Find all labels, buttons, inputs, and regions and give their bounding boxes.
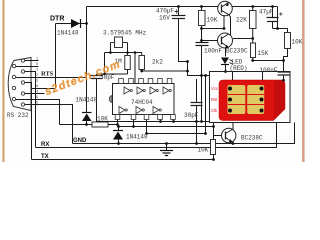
junction R8 at bus126 [212,125,215,128]
U1 inverter gates bottom row [119,107,161,114]
transistor Q1 BC239C [202,1,233,35]
connector J1 DB9 RS232 outline [8,58,31,111]
transistor Q3 BC238C [214,123,236,144]
ground symbol [160,144,173,156]
polarity mark 470uF [175,9,180,14]
U1 top pins [119,79,172,84]
wire GND from pin5 [25,105,73,144]
DB9 pins left column [12,64,15,100]
svg-text:TX: TX [41,154,49,160]
wire SIM top left drop [232,72,234,81]
wire TX bus [32,159,214,161]
wire TX from pin3 [25,83,32,160]
junction GND C6 [195,142,198,145]
crystal X1 3.579545 MHz [111,37,128,53]
wire bus y121 [97,121,210,123]
wire bus y126 [119,126,214,128]
SIM card body [219,80,285,121]
wire IC pin drop to bus126 [133,120,135,127]
capacitor C4 47uF [267,7,279,29]
wire pin4 stub [25,93,45,95]
svg-text:1N4148: 1N4148 [76,97,98,104]
wire inverter input drop [134,53,136,84]
resistor R4 22K [250,7,257,44]
junction right corner [276,27,279,30]
IC U1 74HC04 body [109,84,174,115]
wire pin9 to bottom bus [16,100,60,125]
wire pin1 stub [25,60,39,62]
wire DTR vertical from DB9 pin 8 [16,24,56,89]
junction bus126 pin [132,125,135,128]
junction bus121 C3 [195,120,198,123]
junction at rail drop [85,22,88,25]
diode D3 1N4148 [113,127,123,144]
svg-text:2k2: 2k2 [152,59,163,66]
junction LED anode [224,70,227,73]
transistor Q2 BC239C [202,33,233,57]
junction GND tap [165,142,168,145]
svg-text:2: 2 [36,69,39,73]
svg-text:RS 232: RS 232 [7,112,29,119]
wire bus y133 [147,133,206,135]
wire IC pins drop to bus121 [161,120,174,122]
capacitor C5 100nF right [278,72,290,80]
svg-text:3: 3 [36,80,39,84]
svg-text:Vcc: Vcc [211,86,218,91]
svg-text:DTR: DTR [50,16,64,23]
svg-text:BC239C: BC239C [226,48,248,55]
svg-text:47µF: 47µF [259,9,274,16]
resistor R7 10K horizontal [60,122,118,127]
wire rail left drop to DTR diode [86,7,88,24]
svg-text:(RED): (RED) [230,65,248,72]
wire rail right corner down [273,7,288,29]
svg-text:100nF: 100nF [204,48,222,55]
junction bus121 pin2 [172,120,175,123]
junction mid [186,70,189,73]
svg-text:470µF: 470µF [156,8,174,15]
svg-text:6: 6 [36,63,39,67]
junction D2 bottom [85,123,88,126]
SIM pin dots left [228,87,232,113]
svg-text:30pF: 30pF [184,112,199,119]
LED D4 red [221,58,233,72]
diode D2 1N4148 vertical [82,113,92,125]
resistor R5 15K [251,43,284,61]
junction R7 right at pin [116,123,119,126]
junction 2k2 bottom [140,70,143,73]
wire VCC top rail [87,6,278,8]
junction Q2 base [200,39,203,42]
page border left [2,0,4,162]
wire RX bus [36,123,277,148]
junction Q3 emitter at GND [232,142,235,145]
resistor R3 10K [199,7,206,43]
SIM holder box [210,72,291,123]
resistor R6 10K right [284,29,291,73]
svg-text:1N4148: 1N4148 [57,30,79,37]
junction 470uF at rail [177,5,180,8]
wire GND bus [73,123,295,144]
junction SIM feed [204,74,207,77]
junction 30pF wire [103,73,106,76]
junction Q1 base [223,27,226,30]
wire IC pin1 drop [117,120,119,125]
svg-text:10K: 10K [198,147,209,154]
junction bus126 left [117,125,120,128]
wire crystal bottom bus [105,52,142,54]
junction R3 bottom [200,27,203,30]
junction C4 top [271,5,274,8]
wire SIM feed vertical [205,76,207,134]
svg-text:Clk: Clk [211,108,218,113]
svg-text:GND: GND [73,138,87,144]
junction R6 bottom [282,59,285,62]
resistor R8 10K base [211,123,216,160]
SIM card right shade [273,80,284,120]
wire pin6 stub [16,66,39,68]
SIM contact pad right [247,85,264,114]
U1 inverter gates top row [124,87,171,94]
svg-text:RX: RX [41,142,49,148]
wire D2 feed vertical [86,24,88,113]
capacitor C3 100nF [196,43,209,122]
wire mid node vertical [188,62,210,76]
wire RTS from pin7 [16,77,87,79]
wire Q2 collector to 22K [233,38,253,40]
svg-text:BC238C: BC238C [241,135,263,142]
junction R8 at TX [212,158,215,161]
capacitor C1 30pF [91,53,105,122]
capacitor C2 470uF 16V [172,7,188,62]
svg-text:22K: 22K [236,17,247,24]
junction crystal right [126,51,129,54]
junction C3 at wire A [200,74,203,77]
junction 15K bottom [251,59,254,62]
junction crystal left [109,51,112,54]
junction bus121 pin [159,120,162,123]
DB9 pins right column [21,59,24,106]
SIM pad divider lines [228,95,264,105]
svg-text:7: 7 [36,74,38,78]
polarity mark 47uF [279,12,283,16]
page border right [302,0,305,162]
wire DTR horizontal [56,23,87,25]
SIM pin dots right [260,87,264,113]
svg-text:Rst: Rst [211,97,218,102]
wire 2k2 bottom horizontal [142,70,188,72]
svg-text:74HC04: 74HC04 [131,99,153,106]
wire RX from pin2 [25,72,36,148]
junction C3 bottom at bus [200,120,203,123]
svg-text:1N4148: 1N4148 [126,134,148,141]
wire SIM top right drop [262,72,264,81]
svg-text:RTS: RTS [41,71,54,78]
resistor R2 2k2 [139,53,145,72]
junction C5 at SIM [282,79,285,82]
svg-text:3.579545 MHz: 3.579545 MHz [103,30,147,37]
capacitor C6 30pF [191,79,203,144]
junction inverter drop [134,51,137,54]
junction R3 at rail [200,5,203,8]
svg-text:16V: 16V [159,15,170,22]
junction R4 at rail [251,5,254,8]
SIM pin labels [211,86,218,113]
diode D1 1N4148 (DTR) [71,19,81,28]
SIM contact pad left [228,85,246,114]
pin numbers [36,58,39,106]
junction 22K bottom [251,37,254,40]
junction bus133 right [204,132,207,135]
svg-text:10K: 10K [207,17,218,24]
junction bus133 left [145,132,148,135]
resistor R1 1M [97,53,131,75]
svg-text:15K: 15K [258,50,269,57]
wire IC pin drop to bus133 [146,120,148,134]
U1 bottom pins [115,115,175,120]
svg-text:10K: 10K [292,39,303,46]
junction GND D3 [117,142,120,145]
svg-text:1: 1 [36,58,39,62]
junction 470uF bottom [186,60,189,63]
